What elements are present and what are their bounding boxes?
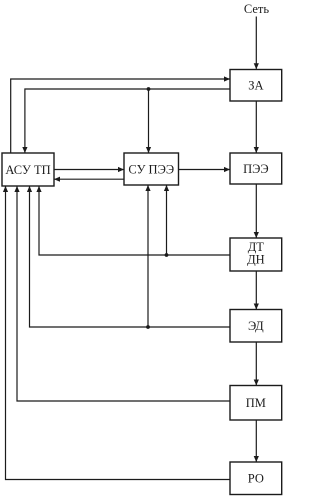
wire РО to АСУ ТП feedback xyxy=(3,186,230,480)
block СУ ПЭЭ xyxy=(124,153,179,185)
svg-text:РО: РО xyxy=(248,472,264,486)
wire ЭД to ПМ xyxy=(254,342,259,386)
wire СУ ПЭЭ to ПЭЭ xyxy=(179,167,231,172)
block ДТ ДН xyxy=(230,238,282,271)
svg-text:ЭД: ЭД xyxy=(248,319,264,333)
wire ЭД to АСУ ТП feedback xyxy=(27,186,230,327)
svg-text:ПЭЭ: ПЭЭ xyxy=(243,162,269,176)
wire ПЭЭ to ДТ ДН xyxy=(254,184,259,238)
wire АСУ ТП to ЗА xyxy=(11,76,230,153)
block АСУ ТП xyxy=(2,153,54,186)
block ЗА xyxy=(230,70,282,102)
svg-text:Сеть: Сеть xyxy=(244,2,270,16)
block ЭД xyxy=(230,310,282,343)
wire junction to СУ ПЭЭ top xyxy=(146,89,151,153)
svg-text:ПМ: ПМ xyxy=(246,396,266,410)
svg-text:ДН: ДН xyxy=(247,253,265,267)
wire junction to СУ ПЭЭ bottom right xyxy=(164,185,169,255)
svg-text:АСУ ТП: АСУ ТП xyxy=(5,163,50,177)
wire Сеть to ЗА xyxy=(254,17,259,70)
svg-text:СУ ПЭЭ: СУ ПЭЭ xyxy=(128,162,174,176)
block РО xyxy=(230,462,282,495)
wire ДТ ДН to ЭД xyxy=(254,271,259,310)
junction on wire ЗА to АСУ ТП xyxy=(147,87,151,91)
wire СУ ПЭЭ to АСУ ТП xyxy=(54,177,124,182)
junction on ДТ ДН feedback xyxy=(165,253,169,257)
block ПМ xyxy=(230,386,282,421)
junction on ЭД feedback xyxy=(146,325,150,329)
wire АСУ ТП to СУ ПЭЭ xyxy=(54,167,124,172)
wire ДТ ДН to АСУ ТП feedback xyxy=(36,186,230,255)
wire junction to СУ ПЭЭ bottom left xyxy=(145,185,150,327)
wire ЗА to АСУ ТП xyxy=(22,89,230,153)
block ПЭЭ xyxy=(230,153,282,184)
svg-text:ЗА: ЗА xyxy=(248,79,263,93)
wire ПМ to РО xyxy=(254,420,259,462)
wire ЗА to ПЭЭ xyxy=(254,101,259,153)
wire ПМ to АСУ ТП feedback xyxy=(14,186,230,401)
